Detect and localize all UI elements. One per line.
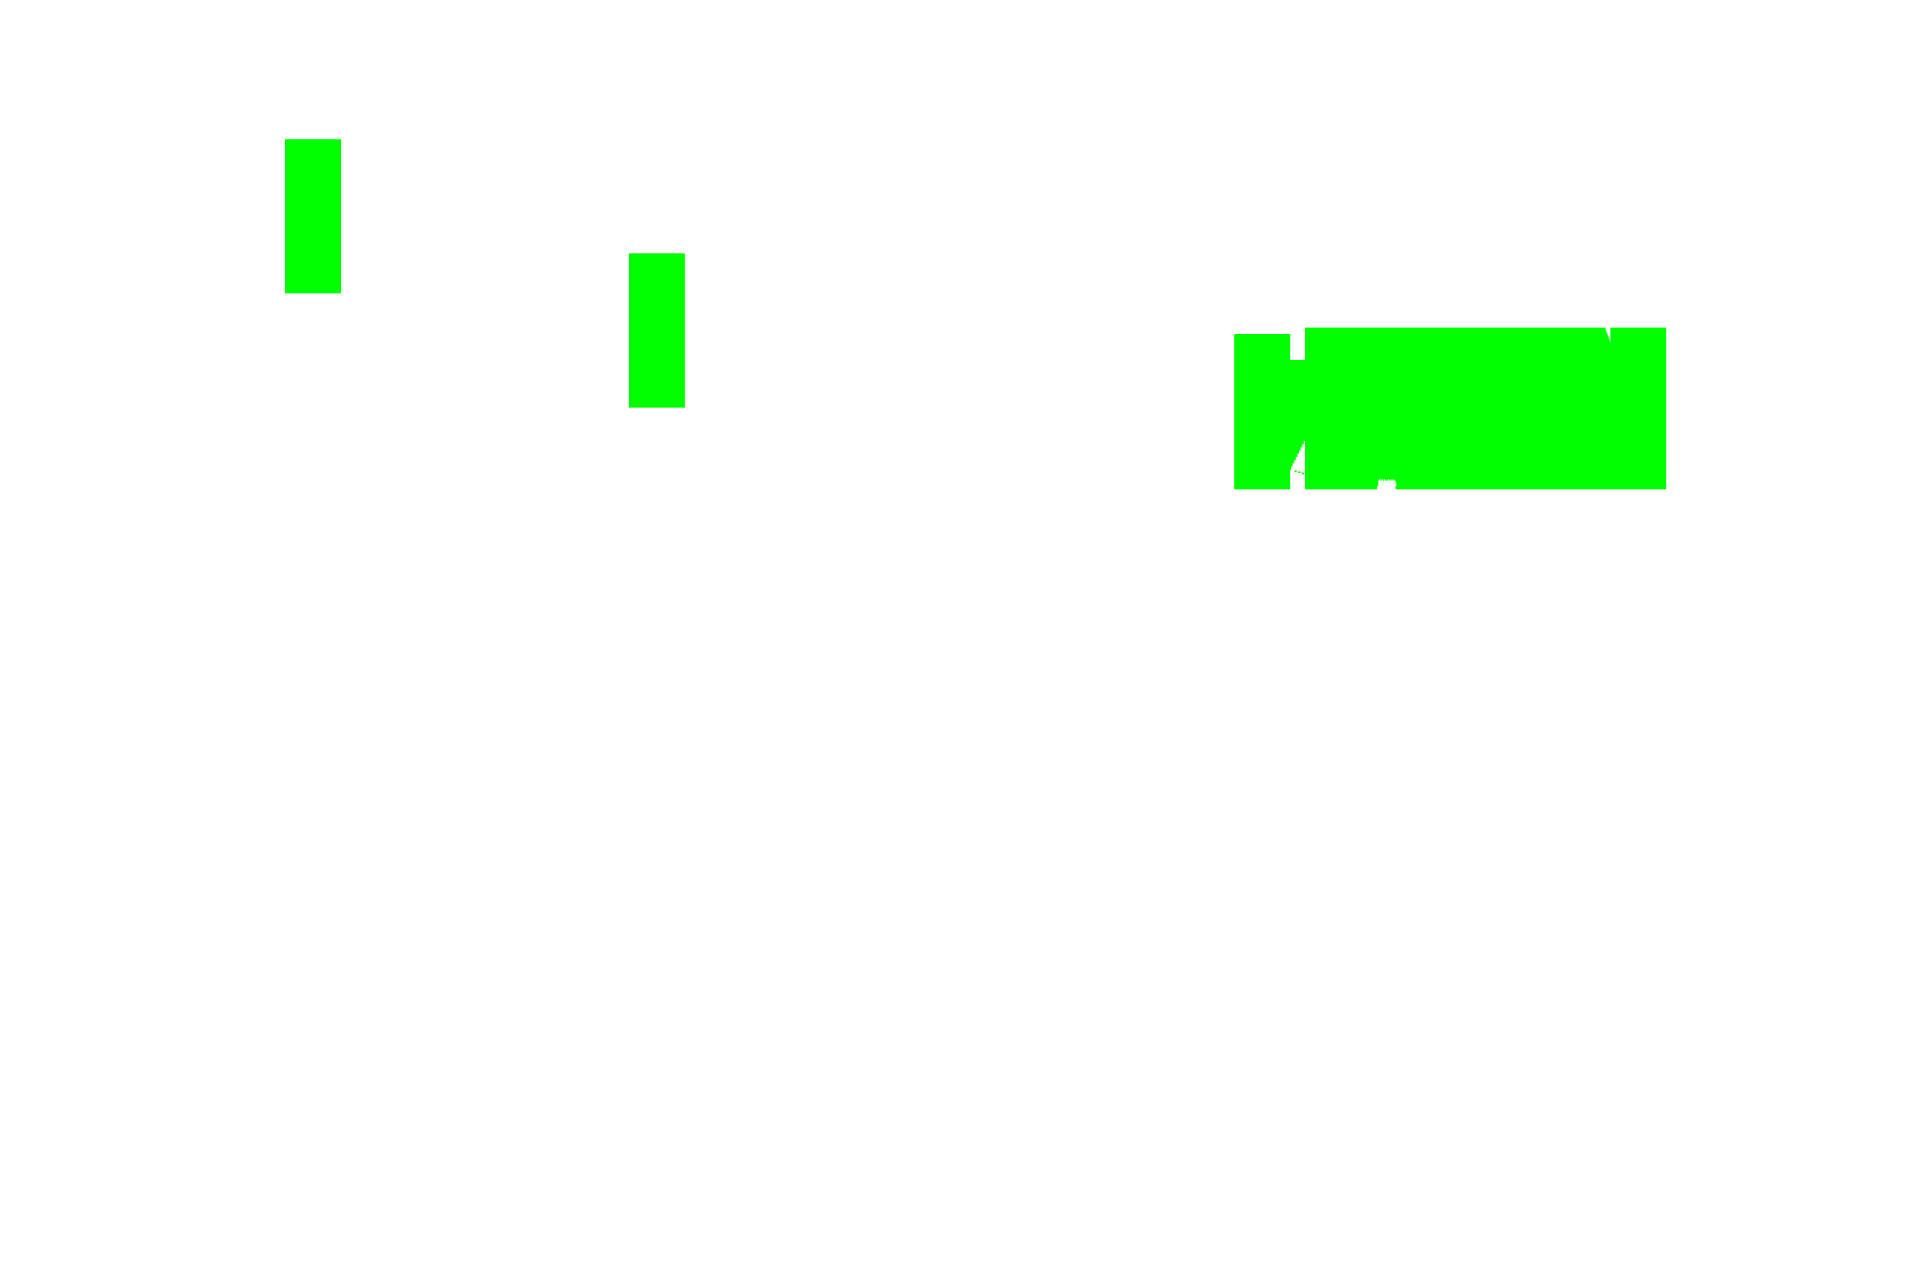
green bar 3 (left column of big block) (1234, 334, 1290, 489)
white nick crack at top of main block (1606, 328, 1611, 343)
green bar 1 (left candle) (285, 139, 341, 293)
white jagged patch at bottom of main block (1377, 479, 1396, 489)
green bar 2 (middle candle) (629, 253, 685, 407)
green gap filler between bar 3 and main block (1290, 360, 1305, 473)
green dash remnants under wedge (1295, 470, 1297, 472)
big green rectangle (main block) (1305, 328, 1666, 490)
